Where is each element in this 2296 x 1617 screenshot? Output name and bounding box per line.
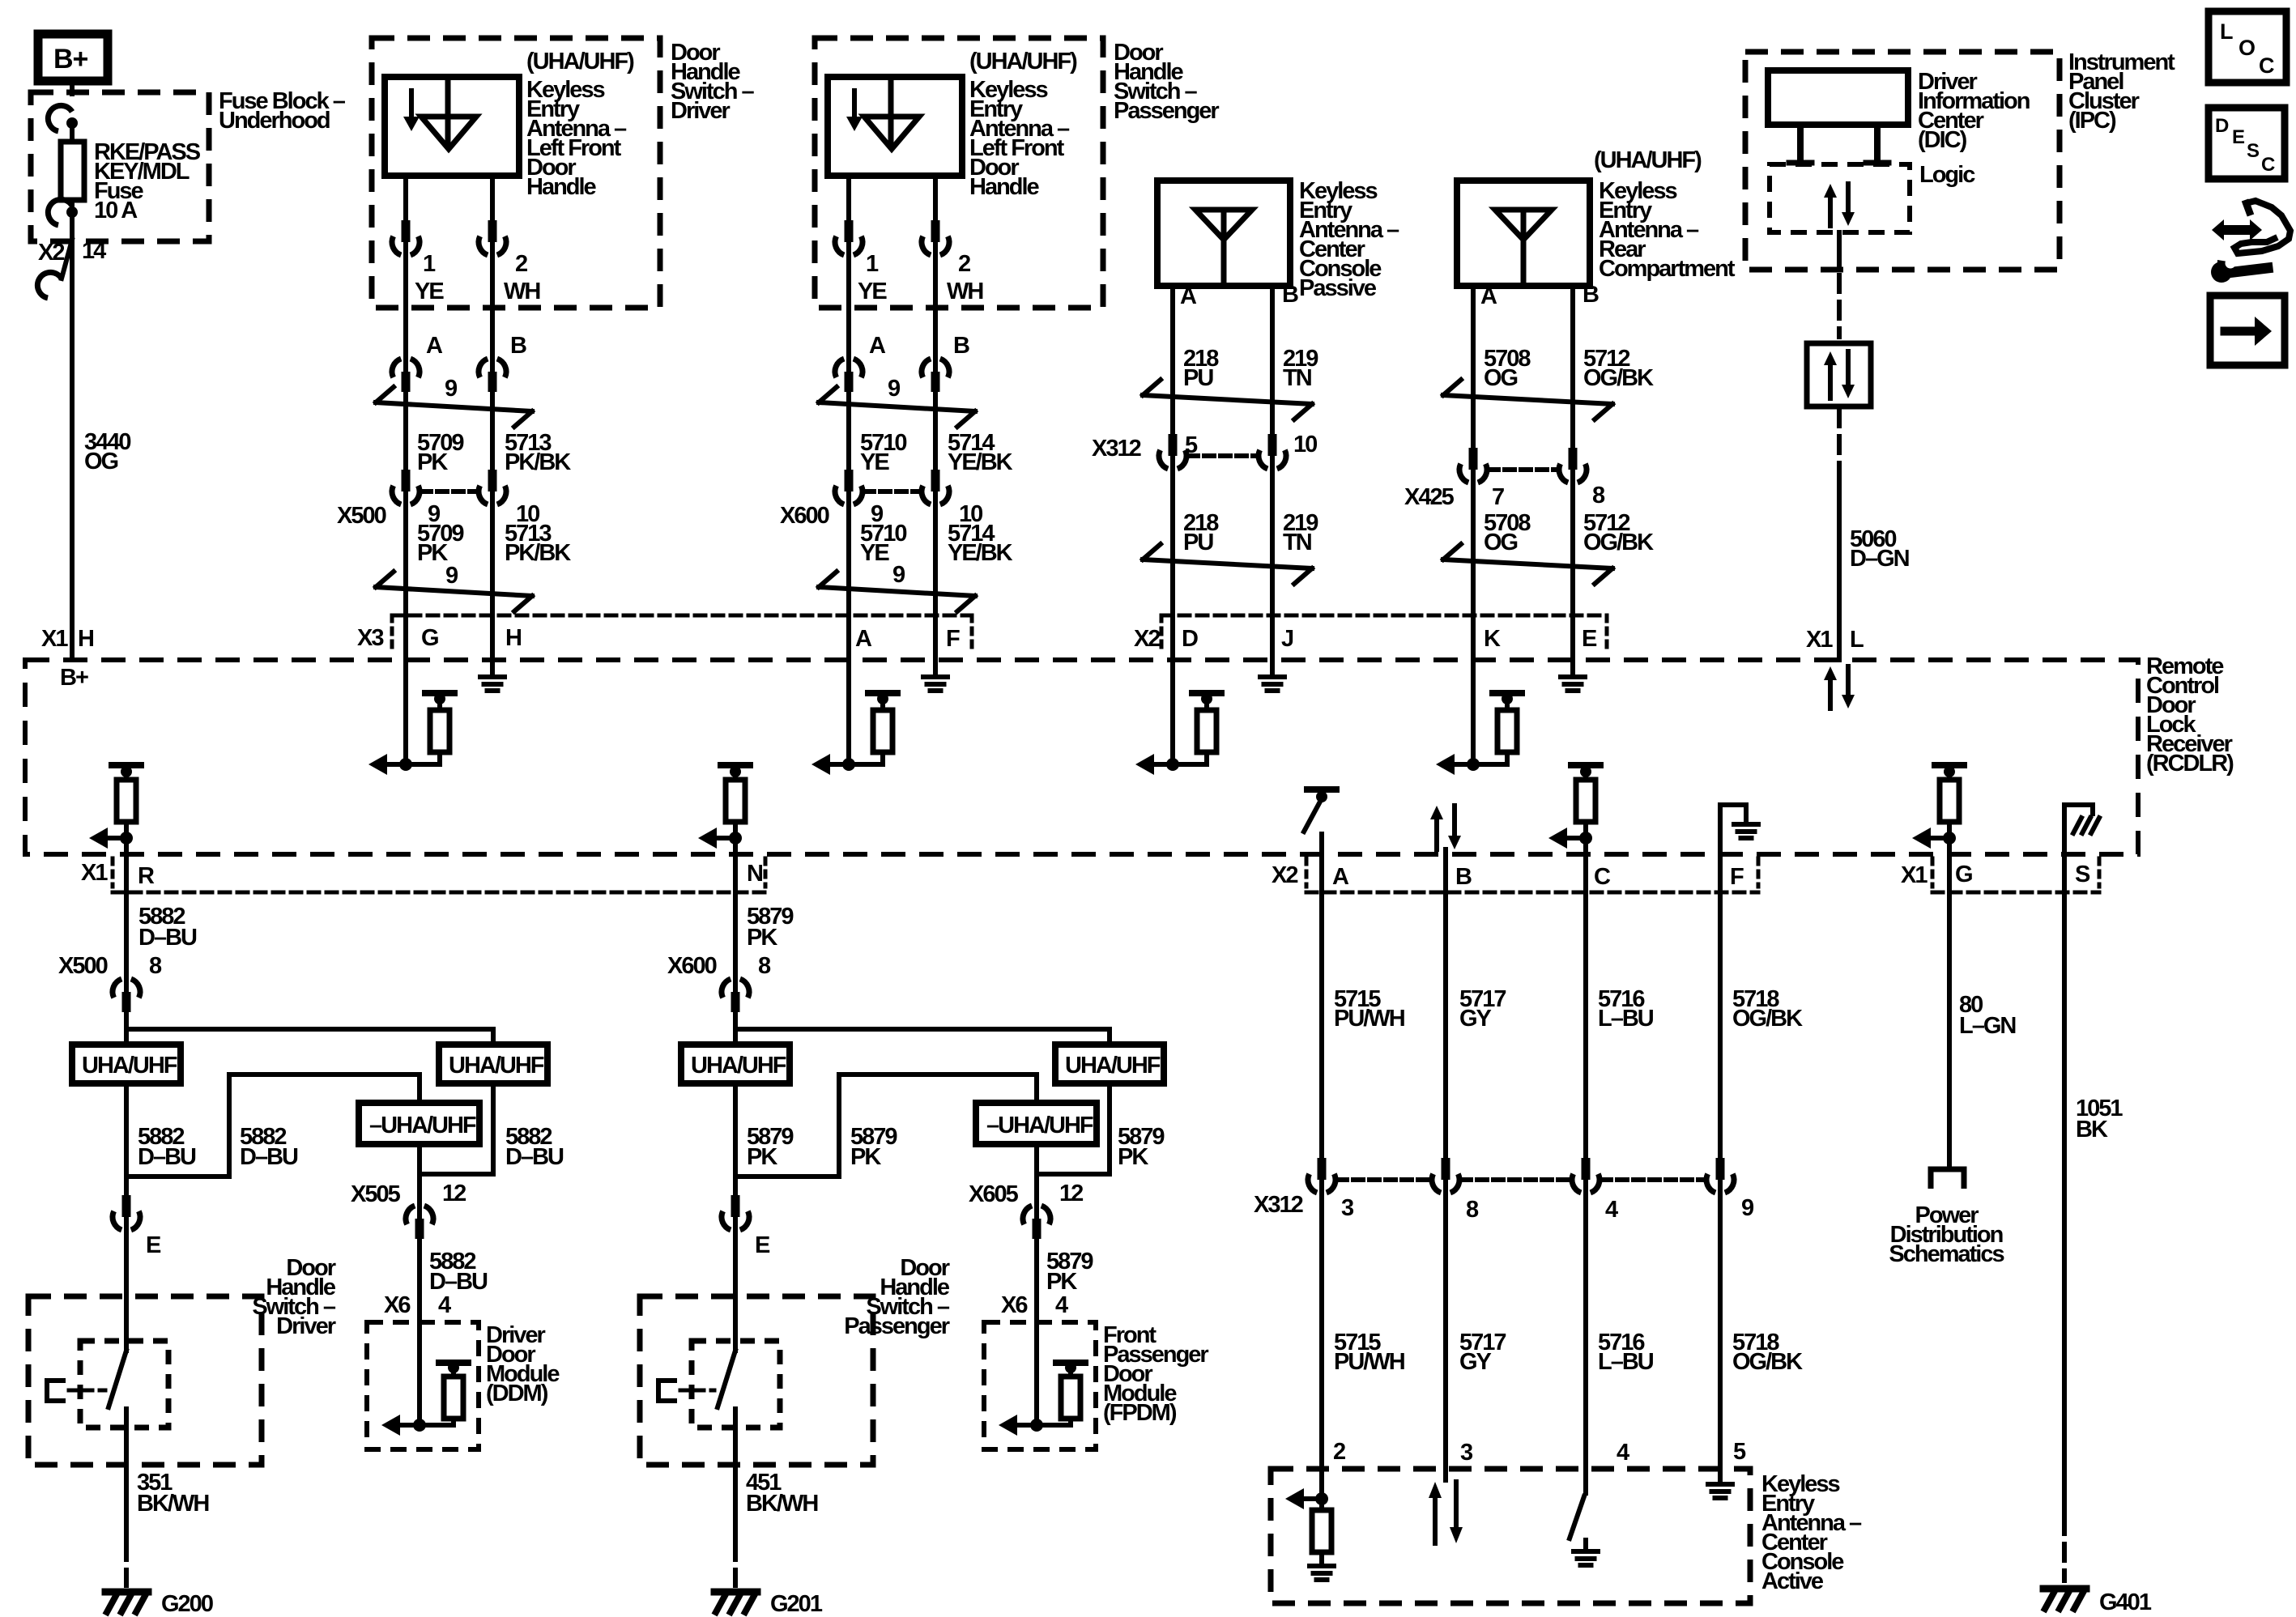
Remote Control Door Lock Receiver (RCDLR) dashed box [25, 660, 2138, 854]
ground G201 [714, 1589, 757, 1596]
door handle switch driver outer dashed box [124, 1232, 129, 1296]
front passenger door module dashed box [984, 1322, 1096, 1449]
svg-text:X2: X2 [1134, 626, 1160, 652]
inline connector X500 pin 10 [490, 488, 495, 508]
svg-text:PK: PK [417, 540, 448, 566]
svg-text:Active: Active [1761, 1568, 1824, 1594]
svg-text:WH: WH [504, 279, 539, 304]
wire 5879 PK to FPDM [1034, 1238, 1039, 1322]
svg-text:L–BU: L–BU [1598, 1006, 1654, 1032]
connector pin B driver [490, 355, 495, 375]
svg-text:PU: PU [1183, 365, 1213, 391]
door handle switch driver inner dashed box [80, 1341, 168, 1428]
antenna arrow driver [409, 91, 414, 118]
svg-text:(UHA/UHF): (UHA/UHF) [1594, 147, 1702, 173]
wire antenna pin 1 [403, 176, 408, 223]
RCDLR serial arrows above pin B [1434, 819, 1439, 849]
svg-text:Logic: Logic [1919, 162, 1975, 188]
svg-text:4: 4 [438, 1292, 451, 1318]
inline connector X312 pin 8 [1443, 1177, 1448, 1196]
UHA/UHF box driver left [72, 1045, 181, 1083]
svg-text:PU: PU [1183, 530, 1213, 555]
active antenna internal pin 5 ground [1718, 1469, 1723, 1483]
svg-text:D–BU: D–BU [138, 1144, 196, 1170]
twisted pair symbol passenger lower [819, 587, 975, 596]
svg-text:B+: B+ [60, 665, 88, 691]
wire 5718 OG/BK lower [1718, 1194, 1723, 1469]
svg-text:(DDM): (DDM) [486, 1381, 548, 1406]
svg-text:E: E [2232, 126, 2245, 148]
svg-text:1: 1 [866, 251, 879, 277]
inline connector X312 pin 9 [1718, 1177, 1723, 1196]
svg-text:G: G [1955, 862, 1972, 887]
svg-text:4: 4 [1617, 1440, 1629, 1466]
dashed wire to G201 [733, 1543, 738, 1585]
dashed serial data wire lower [1837, 410, 1842, 470]
wire console pin A [1170, 286, 1175, 660]
wire 5710 YE lower [846, 505, 851, 660]
svg-text:GY: GY [1459, 1349, 1492, 1375]
door handle switch driver dashed box [372, 38, 660, 308]
wire 5714 YE/BK upper [933, 391, 938, 474]
svg-text:F: F [1730, 864, 1744, 890]
svg-text:BK/WH: BK/WH [746, 1491, 817, 1517]
svg-text:X312: X312 [1254, 1192, 1303, 1218]
wire 5713 PK/BK lower [490, 505, 495, 660]
svg-text:OG: OG [1484, 530, 1518, 555]
svg-text:E: E [1582, 626, 1597, 652]
wire 5882 D-BU from pin R [124, 854, 129, 975]
svg-text:WH: WH [947, 279, 982, 304]
svg-text:A: A [869, 333, 886, 359]
inline connector X600 pin 9 [846, 488, 851, 508]
inline connector X312 pin 4 [1583, 1177, 1588, 1196]
svg-text:C: C [2259, 53, 2274, 78]
wire 5716 L-BU lower [1583, 1194, 1588, 1469]
door handle switch passenger inner dashed box [692, 1341, 780, 1428]
svg-text:L–GN: L–GN [1959, 1013, 2015, 1039]
svg-text:(UHA/UHF): (UHA/UHF) [969, 49, 1077, 74]
RCDLR antenna passenger input circuit [846, 660, 851, 764]
RCDLR serial data arrows internal [1828, 680, 1833, 709]
RCDLR rear input circuit [1471, 660, 1476, 764]
svg-text:D: D [2215, 115, 2229, 137]
svg-text:Handle: Handle [526, 174, 597, 200]
svg-text:(RCDLR): (RCDLR) [2146, 751, 2234, 777]
serial data comm box [1807, 343, 1871, 406]
svg-text:X500: X500 [337, 503, 386, 529]
svg-text:PK: PK [850, 1144, 881, 1170]
svg-text:PK: PK [747, 1144, 777, 1170]
svg-text:E: E [146, 1232, 161, 1258]
svg-text:A: A [1180, 283, 1197, 309]
svg-text:C: C [2261, 154, 2275, 176]
svg-text:X500: X500 [58, 953, 108, 979]
svg-text:PK: PK [417, 449, 448, 475]
svg-text:F: F [946, 626, 960, 652]
svg-text:–UHA/UHF: –UHA/UHF [369, 1113, 476, 1138]
connector bracket X1 G / S [1932, 891, 2099, 895]
connector pin 2 [490, 239, 495, 258]
svg-text:X600: X600 [667, 953, 717, 979]
dashed wire to G200 [124, 1543, 129, 1585]
svg-text:G: G [421, 625, 438, 651]
wire 80 L-GN from pin G [1947, 854, 1952, 1168]
RCDLR internal ground above pin F [1720, 805, 1746, 854]
inline connector X500 pin 9 [403, 488, 408, 508]
svg-text:G201: G201 [770, 1591, 823, 1617]
inline connector X600 pin 10 [933, 488, 938, 508]
wire rear pin A [1471, 286, 1476, 660]
svg-text:X312: X312 [1092, 436, 1141, 462]
wire 5718 OG/BK from pin F [1718, 854, 1723, 1161]
svg-text:O: O [2238, 36, 2255, 60]
connector bracket X2 A B C F [1306, 891, 1758, 895]
svg-text:G401: G401 [2099, 1589, 2152, 1615]
svg-text:3: 3 [1341, 1195, 1354, 1221]
-UHA/UHF box driver [359, 1103, 479, 1144]
svg-text:Passenger: Passenger [1114, 98, 1219, 124]
RCDLR ground pin J internal [1270, 660, 1275, 677]
wire rear pin B [1570, 286, 1575, 660]
RCDLR ground pin F internal [933, 660, 938, 677]
wire 1051 BK from pin S [2062, 854, 2067, 1513]
connector bracket X2 D J / K E [1161, 614, 1607, 618]
connector pin 1 [403, 239, 408, 258]
RCDLR switch above pin A [1307, 786, 1336, 793]
twisted pair symbol 9 passenger upper [819, 402, 975, 411]
wire YE [403, 256, 408, 359]
svg-text:BK: BK [2076, 1117, 2108, 1143]
svg-text:3: 3 [1460, 1440, 1473, 1466]
keyless entry antenna rear compartment box [1457, 181, 1590, 286]
driver information center box [1768, 70, 1908, 125]
svg-text:S: S [2247, 140, 2260, 162]
wire 5710 YE upper [846, 391, 851, 474]
svg-text:X1: X1 [81, 860, 108, 886]
wire WH [490, 256, 495, 359]
RCDLR ground pin E internal [1570, 660, 1575, 677]
fuse clip upper [66, 117, 78, 129]
door handle switch passenger outer dashed box [733, 1232, 738, 1296]
fuse RKE/PASS KEY/MDL 10A [61, 142, 84, 200]
svg-text:PK/BK: PK/BK [505, 449, 571, 475]
wire 351 BK/WH [124, 1465, 129, 1538]
wire 5882 D-BU to DDM [417, 1238, 422, 1322]
UHA/UHF box passenger right [1055, 1045, 1164, 1083]
svg-text:B: B [1455, 864, 1472, 890]
svg-text:8: 8 [149, 953, 162, 979]
wire 5714 YE/BK lower [933, 505, 938, 660]
forward arrow icon box [2210, 296, 2285, 365]
svg-text:X1: X1 [1806, 627, 1833, 653]
svg-text:9: 9 [1741, 1195, 1754, 1221]
svg-text:UHA/UHF: UHA/UHF [82, 1053, 177, 1079]
svg-text:A: A [1332, 864, 1349, 890]
svg-text:S: S [2075, 862, 2090, 887]
switch actuator linkage passenger [658, 1381, 677, 1401]
UHA/UHF box driver right [439, 1045, 547, 1083]
twisted pair console lower [1143, 560, 1312, 568]
svg-text:PK: PK [747, 925, 777, 951]
svg-text:9: 9 [445, 563, 458, 589]
svg-text:X600: X600 [780, 503, 829, 529]
wire right UHA/UHF down driver [491, 1083, 496, 1174]
svg-text:(UHA/UHF): (UHA/UHF) [526, 49, 634, 74]
wire logic to IPC border [1837, 232, 1842, 270]
svg-text:Passenger: Passenger [844, 1313, 949, 1339]
antenna arrow passenger [852, 91, 857, 118]
connector pin E driver [124, 1214, 129, 1233]
wire 5717 GY lower [1443, 1194, 1448, 1469]
RCDLR driver output circuit above pin R [112, 762, 141, 768]
logic dashed box [1770, 164, 1910, 232]
svg-text:Driver: Driver [671, 98, 731, 124]
wire 5715 PU/WH from pin A [1319, 854, 1324, 1161]
connector pin A driver [403, 355, 408, 375]
twisted pair rear lower [1443, 560, 1612, 568]
wire 5060 D-GN [1837, 470, 1842, 660]
branch to -UHA/UHF passenger [735, 1074, 1037, 1177]
wire -UHA/UHF to X505 [417, 1144, 422, 1174]
svg-text:K: K [1484, 626, 1501, 652]
instrument panel cluster dashed box [1745, 52, 2060, 270]
svg-text:14: 14 [82, 238, 106, 264]
svg-text:UHA/UHF: UHA/UHF [1065, 1053, 1161, 1079]
keyless entry antenna driver box [385, 77, 519, 176]
svg-text:PU/WH: PU/WH [1334, 1006, 1404, 1032]
wire antenna pin 2 passenger [933, 176, 938, 223]
svg-text:YE: YE [860, 540, 889, 566]
svg-text:PU/WH: PU/WH [1334, 1349, 1404, 1375]
fuse block underhood dashed box [31, 92, 209, 241]
svg-text:X605: X605 [969, 1181, 1019, 1207]
RCDLR antenna driver input circuit [403, 660, 408, 764]
active antenna internal pin 4 switch to ground [1583, 1469, 1588, 1493]
svg-text:B: B [1582, 282, 1599, 308]
svg-text:2: 2 [958, 251, 970, 277]
svg-text:YE: YE [858, 279, 887, 304]
svg-text:OG: OG [84, 449, 118, 474]
switch driver [124, 1296, 129, 1351]
svg-text:A: A [426, 333, 443, 359]
svg-text:(FPDM): (FPDM) [1103, 1400, 1177, 1426]
wire right UHA/UHF down passenger [1107, 1083, 1112, 1174]
svg-text:X505: X505 [351, 1181, 401, 1207]
svg-text:YE: YE [415, 279, 444, 304]
branch to -UHA/UHF driver [126, 1074, 420, 1177]
inline connector X312 pin 10 [1270, 453, 1275, 472]
svg-text:(IPC): (IPC) [2068, 108, 2116, 134]
RCDLR internal chassis ground above pin S [2064, 805, 2093, 854]
svg-text:C: C [1594, 864, 1611, 890]
wire below left UHA/UHF passenger [733, 1083, 738, 1197]
svg-text:12: 12 [1059, 1181, 1083, 1206]
svg-text:4: 4 [1605, 1197, 1618, 1223]
svg-text:A: A [855, 626, 872, 652]
svg-text:X2: X2 [1272, 862, 1297, 888]
svg-text:Schematics: Schematics [1889, 1241, 2004, 1267]
svg-text:X425: X425 [1404, 484, 1455, 510]
svg-text:H: H [505, 625, 521, 651]
DESC icon box [2209, 108, 2285, 179]
dashed wire to G401 [2062, 1517, 2067, 1581]
twisted pair symbol 9 driver upper [376, 402, 532, 411]
antenna symbol console [1195, 210, 1252, 240]
antenna symbol rear [1495, 210, 1552, 240]
wire 5713 PK/BK upper [490, 391, 495, 474]
svg-text:X2: X2 [38, 240, 64, 266]
wrench icon [2211, 262, 2232, 283]
logic serial data arrows [1828, 198, 1833, 226]
svg-text:OG/BK: OG/BK [1732, 1006, 1803, 1032]
wire 5879 PK from pin N [733, 854, 738, 975]
svg-text:TN: TN [1283, 530, 1311, 555]
twisted pair rear upper [1443, 395, 1612, 404]
svg-text:10 A: 10 A [94, 198, 138, 223]
svg-text:D–BU: D–BU [240, 1144, 298, 1170]
connector pin E passenger [733, 1214, 738, 1233]
svg-text:D: D [1182, 626, 1198, 652]
connector bracket X3 G H / A F [392, 614, 972, 618]
svg-text:N: N [747, 861, 762, 887]
svg-text:OG: OG [1484, 365, 1518, 391]
svg-text:5: 5 [1733, 1439, 1746, 1465]
svg-text:(DIC): (DIC) [1918, 127, 1967, 153]
svg-text:UHA/UHF: UHA/UHF [449, 1053, 544, 1079]
keyless entry antenna passenger box [828, 77, 962, 176]
svg-text:L: L [2220, 19, 2233, 44]
svg-text:Driver: Driver [276, 1313, 336, 1339]
wire antenna pin 2 [490, 176, 495, 223]
svg-text:B+: B+ [53, 44, 88, 74]
wire B+ to fuse block [70, 81, 75, 94]
svg-text:12: 12 [442, 1181, 466, 1206]
branch wire to right UHA/UHF passenger [735, 1027, 1110, 1032]
svg-text:D–BU: D–BU [138, 925, 197, 951]
svg-text:4: 4 [1055, 1292, 1068, 1318]
antenna triangle driver [421, 117, 476, 149]
svg-text:X6: X6 [1001, 1292, 1028, 1318]
svg-text:10: 10 [1293, 432, 1317, 457]
svg-text:B: B [1282, 282, 1298, 308]
DIC stubs to logic [1797, 125, 1804, 161]
svg-text:D–GN: D–GN [1850, 546, 1909, 572]
svg-text:PK: PK [1118, 1144, 1148, 1170]
svg-text:R: R [138, 863, 155, 889]
svg-text:8: 8 [1592, 483, 1605, 509]
wire console pin B [1270, 286, 1275, 660]
switch passenger [733, 1296, 738, 1351]
svg-text:B: B [953, 333, 969, 359]
wire antenna pin 1 passenger [846, 176, 851, 223]
wire fuse to X2 pin 14 [70, 212, 75, 241]
UHA/UHF box passenger left [681, 1045, 790, 1083]
svg-text:YE/BK: YE/BK [948, 540, 1013, 566]
connector pin A passenger [846, 355, 851, 375]
svg-text:Passive: Passive [1299, 275, 1377, 301]
hand with arrows and wrench icon [2222, 225, 2251, 235]
svg-text:YE/BK: YE/BK [948, 449, 1013, 475]
off-page connector to power distribution [1931, 1169, 1964, 1189]
RCDLR output circuit above pin C [1571, 762, 1600, 768]
-UHA/UHF box passenger [976, 1103, 1097, 1144]
keyless entry antenna center console active dashed box [1271, 1469, 1750, 1603]
RCDLR console input circuit [1170, 660, 1175, 764]
svg-text:–UHA/UHF: –UHA/UHF [986, 1113, 1093, 1138]
svg-text:X1: X1 [41, 626, 68, 652]
twisted pair console upper [1143, 395, 1312, 404]
svg-text:5: 5 [1185, 432, 1198, 458]
RCDLR ground pin H internal [490, 660, 495, 677]
wire -UHA/UHF to X605 [1034, 1144, 1039, 1174]
svg-text:J: J [1281, 626, 1293, 652]
inline connector X312 pin 5 [1170, 453, 1175, 472]
inline connector X425 pin 8 [1570, 466, 1575, 486]
FPDM internal circuit [1034, 1322, 1039, 1425]
svg-text:L: L [1850, 627, 1864, 653]
wire 5709 PK upper [403, 391, 408, 474]
svg-text:OG/BK: OG/BK [1583, 530, 1654, 555]
svg-text:7: 7 [1492, 484, 1504, 510]
svg-text:1: 1 [423, 251, 436, 277]
RCDLR passenger output circuit above pin N [721, 762, 750, 768]
connector pin 2 passenger [933, 239, 938, 258]
svg-text:Underhood: Underhood [219, 108, 330, 134]
svg-text:H: H [78, 626, 93, 652]
svg-text:X3: X3 [357, 625, 384, 651]
svg-text:GY: GY [1459, 1006, 1492, 1032]
svg-text:8: 8 [1466, 1197, 1479, 1223]
B+ battery feed symbol [38, 34, 108, 81]
svg-text:E: E [755, 1232, 770, 1258]
RCDLR output circuit above pin G [1935, 762, 1964, 768]
branch wire to right UHA/UHF driver [126, 1027, 493, 1032]
svg-text:9: 9 [892, 562, 905, 588]
connector pin 1 passenger [846, 239, 851, 258]
fuse clip lower [66, 206, 78, 218]
wire 451 BK/WH [733, 1465, 738, 1538]
active antenna internal pin 3 arrows [1443, 1469, 1448, 1480]
driver door module dashed box [367, 1322, 479, 1449]
svg-text:YE: YE [860, 449, 889, 475]
svg-text:OG/BK: OG/BK [1732, 1349, 1803, 1375]
inline connector X425 pin 7 [1471, 466, 1476, 486]
svg-text:OG/BK: OG/BK [1583, 365, 1654, 391]
svg-text:2: 2 [1333, 1439, 1345, 1465]
svg-text:G200: G200 [161, 1591, 213, 1617]
ground G200 [105, 1589, 148, 1596]
dashed serial data wire upper [1837, 275, 1842, 337]
svg-text:D–BU: D–BU [429, 1269, 488, 1295]
switch actuator linkage driver [47, 1381, 66, 1401]
svg-text:PK: PK [1046, 1269, 1077, 1295]
wire to UHA/UHF splice passenger [733, 1011, 738, 1045]
ground G401 [2043, 1585, 2086, 1593]
svg-text:9: 9 [445, 376, 458, 402]
svg-text:X6: X6 [384, 1292, 411, 1318]
svg-text:9: 9 [888, 376, 901, 402]
svg-text:PK/BK: PK/BK [505, 540, 571, 566]
svg-text:X1: X1 [1901, 862, 1928, 888]
keyless entry antenna center console passive box [1157, 181, 1290, 286]
svg-text:2: 2 [515, 251, 527, 277]
wire 3440 OG to RCDLR pin H [70, 240, 75, 660]
wire 5716 L-BU from pin C [1583, 854, 1588, 1161]
svg-text:A: A [1480, 283, 1497, 309]
svg-text:Compartment: Compartment [1599, 256, 1736, 282]
LOC icon box [2209, 11, 2286, 83]
